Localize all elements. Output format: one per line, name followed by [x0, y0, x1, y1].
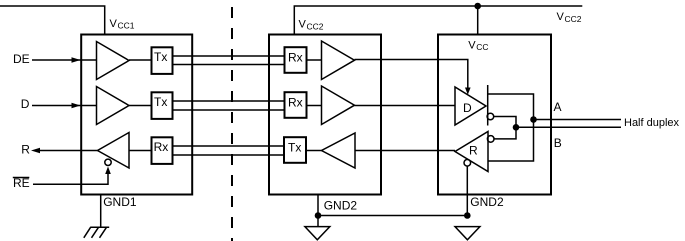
buffer B3 (towards Tx3): [322, 133, 356, 168]
wire RE enable: [33, 174, 108, 185]
wire A line out: [534, 119, 622, 121]
svg-text:V: V: [299, 19, 307, 31]
buffer B2: [322, 86, 355, 125]
svg-text:Half duplex: Half duplex: [624, 117, 680, 129]
wire B line out: [516, 126, 621, 128]
svg-text:RE: RE: [13, 176, 30, 190]
buffer A1 (DE channel): [97, 42, 130, 80]
isolator left-side block U1a: [81, 35, 192, 195]
svg-text:DE: DE: [13, 52, 30, 66]
buffer A3 receiver (R channel): [98, 133, 130, 169]
buffer A2 (D channel): [97, 87, 130, 125]
wire A1 to Tx1: [129, 59, 151, 61]
svg-text:A: A: [554, 100, 562, 114]
node VCC2 junction: [474, 3, 481, 10]
wire GND2 link: [318, 215, 467, 217]
wire D to driver input: [355, 105, 456, 107]
isolator right-side block U1b: [269, 35, 381, 195]
receiver inverting bubble: [487, 136, 494, 143]
block Tx3: [284, 137, 306, 163]
svg-text:GND1: GND1: [103, 195, 137, 209]
wire receiver output R to B3: [355, 150, 455, 152]
ground GND2 right symbol: [455, 227, 480, 240]
block Tx2: [152, 92, 173, 119]
RE overline: [13, 177, 30, 179]
svg-text:Rx: Rx: [288, 50, 303, 64]
wire receiver inverting to B node: [494, 127, 516, 139]
svg-text:D: D: [21, 97, 30, 111]
svg-text:R: R: [21, 142, 30, 156]
wire Rx2 to buffer B2: [307, 105, 322, 107]
driver output bar: [487, 85, 489, 126]
block Rx1: [285, 47, 307, 73]
svg-text:R: R: [469, 143, 478, 157]
wire VCC1 rail top-left: [0, 6, 105, 35]
wire DE to driver enable: [355, 60, 468, 89]
wire Rx1 to buffer B1: [307, 59, 322, 61]
wire driver inverting to B node: [494, 117, 516, 128]
ground GND2 left symbol: [305, 227, 330, 240]
svg-text:Rx: Rx: [154, 140, 169, 154]
receiver enable bubble: [464, 160, 471, 167]
wire A2 to Tx2: [129, 105, 151, 107]
svg-text:CC2: CC2: [307, 21, 324, 31]
wire B3 to Tx3: [306, 150, 322, 152]
svg-text:V: V: [468, 39, 476, 51]
svg-text:GND2: GND2: [324, 199, 358, 213]
wire DE input: [32, 59, 97, 61]
node GND2 right junction: [464, 212, 471, 219]
isolation barrier dashed line: [231, 0, 233, 241]
wire VCC2 drop to transceiver: [477, 6, 479, 35]
driver D: [455, 87, 486, 125]
svg-text:CC1: CC1: [118, 21, 135, 31]
svg-text:Tx: Tx: [154, 95, 167, 109]
enable bubble on A3: [105, 159, 111, 165]
node A junction: [530, 116, 537, 123]
wire R output: [40, 150, 98, 152]
svg-text:D: D: [463, 101, 472, 115]
driver inverting bubble: [487, 113, 494, 120]
svg-text:Tx: Tx: [154, 50, 167, 64]
svg-text:B: B: [554, 136, 562, 150]
transceiver block U2: [438, 35, 551, 195]
svg-text:CC2: CC2: [565, 14, 582, 24]
wire driver noninverting to A node: [488, 94, 534, 161]
wire D input: [32, 105, 97, 107]
node B junction: [513, 124, 520, 131]
buffer B1: [322, 41, 355, 80]
svg-text:Rx: Rx: [288, 95, 303, 109]
wire isolation pair channel 1: [173, 55, 284, 57]
wire GND2 stub from isolator: [317, 195, 319, 228]
block Tx1: [152, 47, 173, 74]
block Rx3: [152, 137, 173, 164]
block Rx2: [285, 92, 307, 118]
wire VCC2 rail top-right: [294, 6, 582, 35]
svg-text:Tx: Tx: [288, 140, 301, 154]
wire isolation pair channel 2: [173, 100, 284, 102]
svg-text:V: V: [557, 11, 565, 23]
svg-text:GND2: GND2: [470, 195, 504, 209]
ground GND1 chassis symbol: [90, 226, 109, 228]
wire A3 to Rx3: [129, 150, 151, 152]
node GND2 left junction: [315, 212, 322, 219]
wire GND1 stub: [100, 195, 102, 228]
receiver R: [455, 132, 488, 172]
wire receiver enable to GND2: [466, 166, 468, 215]
svg-text:CC: CC: [476, 42, 488, 52]
svg-text:V: V: [110, 18, 118, 30]
wire isolation pair channel 3: [173, 145, 284, 147]
